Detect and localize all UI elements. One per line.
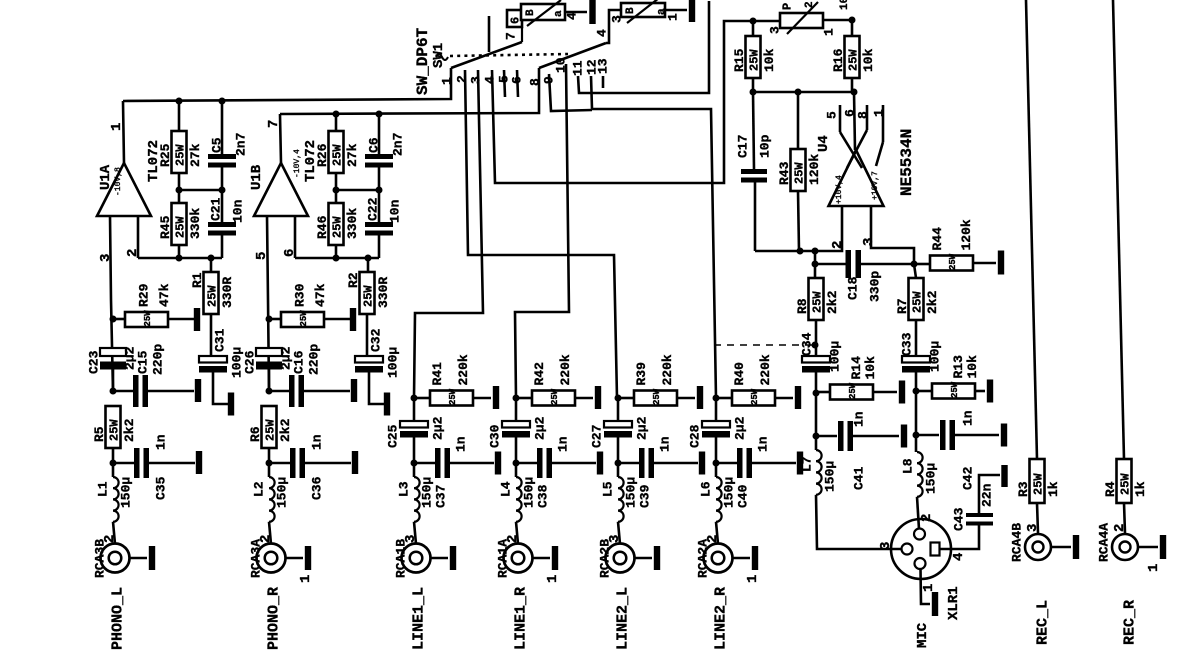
svg-text:4: 4	[951, 553, 967, 561]
inductor L2	[252, 477, 290, 522]
svg-text:47k: 47k	[157, 283, 172, 307]
wire (U1A feedback row)	[138, 258, 222, 272]
svg-text:1n: 1n	[658, 436, 673, 452]
wire (REC_R from top)	[1113, 0, 1124, 459]
node (R42 tap)	[513, 395, 520, 402]
svg-text:-10V,4: -10V,4	[293, 149, 302, 178]
svg-text:1n: 1n	[961, 410, 976, 426]
switch SW1 arm pole1	[451, 27, 522, 68]
svg-text:330k: 330k	[188, 208, 203, 239]
capacitor C21	[208, 190, 246, 258]
svg-text:1k: 1k	[1046, 481, 1061, 497]
wire (SW1 pin 4 to mic volume pot)	[492, 21, 780, 183]
svg-text:220k: 220k	[758, 354, 773, 385]
svg-text:C21: C21	[209, 197, 224, 221]
svg-text:4: 4	[595, 29, 610, 37]
node (R43 top)	[795, 89, 802, 96]
svg-text:7: 7	[504, 32, 519, 40]
wire (U4 pin 8)	[847, 105, 871, 168]
svg-text:R39: R39	[634, 362, 649, 386]
svg-text:SW1: SW1	[431, 43, 447, 68]
wire (SW1 pin 9)	[549, 74, 592, 111]
node (C41 tap)	[813, 433, 820, 440]
capacitor C38	[516, 436, 596, 508]
switch SW1 arm pole2	[539, 43, 606, 68]
switch SW1 pin 4	[483, 76, 498, 84]
svg-text:3: 3	[469, 76, 484, 84]
switch SW1 pin 5	[497, 70, 512, 97]
svg-text:25W: 25W	[299, 310, 309, 327]
capacitor C25	[386, 398, 446, 477]
svg-text:25W: 25W	[173, 216, 187, 238]
wire	[112, 448, 115, 477]
svg-text:R40: R40	[732, 362, 747, 386]
svg-text:10k: 10k	[863, 356, 878, 380]
svg-text:25W: 25W	[792, 162, 806, 184]
node (C40 tap)	[713, 460, 720, 467]
svg-text:150µ: 150µ	[624, 477, 639, 508]
capacitor C35	[113, 434, 195, 500]
ground (C15)	[195, 379, 201, 402]
svg-text:1: 1	[1146, 564, 1162, 572]
svg-text:1: 1	[921, 584, 937, 592]
resistor R15	[732, 21, 777, 92]
ground (C35)	[196, 451, 202, 474]
node (C5-C21)	[219, 187, 226, 194]
wire (U1B pin 6 inverting input)	[282, 216, 298, 258]
resistor R6	[248, 406, 293, 448]
svg-text:C27: C27	[590, 425, 605, 448]
svg-text:C38: C38	[536, 484, 551, 508]
capacitor C34	[800, 332, 843, 450]
svg-text:25W: 25W	[652, 388, 662, 405]
svg-text:C39: C39	[638, 484, 653, 508]
ground (C42)	[1001, 424, 1007, 447]
svg-text:U4: U4	[816, 135, 832, 152]
wire (RCA4A ground stub)	[1138, 546, 1158, 549]
capacitor C5	[208, 101, 249, 190]
svg-text:25W: 25W	[205, 285, 219, 307]
svg-text:5: 5	[825, 111, 840, 119]
svg-text:2µ2: 2µ2	[533, 416, 548, 440]
svg-text:3: 3	[1025, 524, 1041, 532]
resistor R39	[618, 354, 695, 405]
svg-text:2k2: 2k2	[925, 290, 940, 314]
capacitor C17	[736, 92, 773, 251]
svg-text:25W: 25W	[330, 216, 344, 238]
node (pot1-R16)	[849, 17, 856, 24]
wire (SW1 pin 11 up)	[578, 1, 709, 93]
svg-text:25W: 25W	[950, 381, 960, 398]
switch SW1 pin 9	[542, 76, 557, 84]
wire (RCA1B ground stub)	[431, 557, 449, 560]
inductor L7	[800, 450, 838, 495]
svg-text:R7: R7	[895, 298, 910, 314]
switch SW1 pin 1	[440, 77, 455, 85]
switch SW1 pin 8	[528, 78, 543, 86]
svg-text:RCA3B: RCA3B	[93, 539, 108, 578]
svg-text:C32: C32	[369, 328, 384, 352]
capacitor C40	[716, 436, 796, 508]
svg-text:C26: C26	[243, 350, 258, 374]
resistor R4	[1103, 459, 1148, 503]
svg-text:LINE1_R: LINE1_R	[512, 587, 529, 650]
svg-text:R25: R25	[158, 143, 173, 167]
ground (pot A)	[589, 0, 595, 24]
svg-text:8: 8	[528, 78, 543, 86]
svg-text:R44: R44	[930, 227, 945, 251]
potentiometer P (mic volume)	[768, 0, 852, 36]
node (rail1-R25)	[176, 98, 183, 105]
svg-text:10p: 10p	[758, 134, 773, 158]
svg-text:2: 2	[1112, 524, 1128, 532]
svg-text:REC_R: REC_R	[1121, 600, 1138, 645]
svg-text:25W: 25W	[848, 382, 858, 399]
svg-text:330R: 330R	[220, 277, 235, 308]
ground (C40)	[797, 452, 803, 475]
connector RCA1B	[394, 535, 431, 578]
svg-text:3: 3	[98, 254, 114, 262]
wire (L5 to RCA2B)	[618, 522, 620, 544]
wire	[268, 448, 271, 477]
svg-text:PHONO_L: PHONO_L	[109, 587, 126, 650]
svg-text:25W: 25W	[747, 49, 761, 71]
resistor R46	[315, 190, 360, 258]
svg-text:C41: C41	[852, 466, 867, 490]
node (C42 tap)	[913, 432, 920, 439]
node (R25-R45)	[176, 187, 183, 194]
capacitor C23	[87, 346, 138, 391]
svg-text:+10V,4: +10V,4	[835, 175, 844, 204]
ground (C39)	[699, 452, 705, 475]
svg-text:R5: R5	[92, 426, 107, 442]
svg-text:2k2: 2k2	[278, 418, 293, 442]
resistor R2	[346, 272, 391, 314]
ground (RCA1B)	[450, 546, 456, 570]
svg-text:3: 3	[861, 238, 877, 246]
ground (C41)	[901, 425, 907, 448]
svg-text:2k2: 2k2	[122, 418, 137, 442]
label REC_R	[1121, 600, 1138, 645]
switch SW1 pin 2	[455, 75, 470, 83]
resistor R30	[269, 283, 350, 327]
node (R30 tap)	[266, 316, 273, 323]
svg-text:150µ: 150µ	[722, 477, 737, 508]
wire (U1A output pin 1 to rail)	[109, 101, 125, 163]
svg-text:R3: R3	[1016, 481, 1031, 497]
capacitor C36	[269, 434, 351, 500]
svg-text:C6: C6	[367, 137, 382, 153]
svg-text:RCA4B: RCA4B	[1010, 523, 1025, 562]
svg-text:L1: L1	[96, 481, 111, 497]
svg-text:8: 8	[856, 111, 871, 119]
ground (R30)	[350, 308, 356, 331]
wire (L4 to RCA1A)	[516, 522, 518, 544]
svg-text:C18: C18	[846, 276, 861, 300]
ground (C43)	[1001, 465, 1007, 487]
wire (L2 to RCA3A)	[269, 522, 271, 544]
svg-text:R43: R43	[777, 161, 792, 185]
ground (C32)	[384, 393, 390, 416]
switch SW1 pin 10	[554, 57, 569, 73]
svg-text:25W: 25W	[846, 49, 860, 71]
capacitor C31	[199, 314, 245, 404]
svg-text:1: 1	[822, 28, 837, 36]
svg-text:25W: 25W	[143, 310, 153, 327]
svg-text:C22: C22	[366, 197, 381, 221]
svg-text:NE5534N: NE5534N	[898, 129, 916, 196]
svg-text:R26: R26	[315, 143, 330, 167]
node (R8 top)	[812, 248, 819, 255]
ground (RCA1A)	[552, 546, 558, 570]
potentiometer P1 (gain pot A, cut off)	[504, 0, 587, 40]
inductor L6	[699, 477, 737, 522]
svg-text:2n7: 2n7	[234, 133, 249, 156]
resistor R43	[777, 92, 822, 251]
wire (U4 output node rail)	[753, 91, 854, 94]
capacitor C32	[355, 314, 401, 404]
node (R15 bottom)	[750, 89, 757, 96]
svg-text:C33: C33	[900, 332, 915, 356]
node (R8-C18)	[812, 261, 819, 268]
wire (U1A output rail to SW1 pin 1)	[123, 68, 451, 101]
ground (R13)	[987, 380, 993, 403]
svg-text:R41: R41	[430, 362, 445, 386]
node (C38 tap)	[513, 460, 520, 467]
wire (U1A pin 3 non-inverting input)	[98, 216, 114, 391]
svg-text:U1A: U1A	[98, 164, 114, 190]
node (C18-R7-R44)	[911, 261, 918, 268]
svg-text:25W: 25W	[330, 144, 344, 166]
svg-text:RCA3A: RCA3A	[249, 539, 264, 578]
ground (C16)	[351, 379, 357, 402]
wire (XLR pin4 to C43)	[940, 526, 979, 550]
svg-text:150µ: 150µ	[420, 477, 435, 508]
resistor R41	[414, 354, 491, 405]
wire (L3 to RCA1B)	[414, 522, 416, 544]
svg-text:5: 5	[254, 252, 270, 260]
node (pot3-R15)	[750, 18, 757, 25]
capacitor C27	[590, 398, 650, 477]
svg-text:L6: L6	[699, 481, 714, 497]
capacitor C39	[618, 436, 698, 508]
node (U4 out)	[851, 89, 858, 96]
ground (RCA3B)	[149, 546, 155, 570]
svg-text:RCA2A: RCA2A	[696, 539, 711, 578]
node (mic tap)	[812, 342, 819, 349]
svg-text:7: 7	[266, 120, 282, 128]
node (C35 tap)	[110, 460, 117, 467]
svg-text:1n: 1n	[756, 436, 771, 452]
svg-text:R13: R13	[951, 355, 966, 379]
svg-text:25W: 25W	[1031, 473, 1045, 495]
node (R26-R46)	[333, 187, 340, 194]
switch SW1 gang dotted line	[450, 54, 568, 56]
svg-text:220p: 220p	[307, 344, 322, 375]
switch SW1 pin 11	[571, 60, 586, 76]
svg-text:L2: L2	[252, 481, 267, 497]
svg-text:C35: C35	[154, 476, 169, 500]
label REC_L	[1034, 600, 1051, 645]
wire (R4 to RCA4A)	[1124, 503, 1125, 533]
ground (R39)	[697, 386, 703, 409]
resistor R8	[795, 278, 840, 356]
svg-text:C37: C37	[434, 485, 449, 508]
node (rail2-R26)	[333, 111, 340, 118]
label RCA4A pin1	[1146, 564, 1162, 572]
wire (SW1 pin 12 to LINE2_R)	[591, 76, 716, 398]
node (R41 tap)	[411, 395, 418, 402]
potentiometer P2 (gain pot B, cut off)	[610, 0, 687, 23]
wire (feedback tap row B)	[336, 189, 379, 192]
resistor R3	[1016, 459, 1061, 503]
svg-text:1: 1	[545, 575, 561, 583]
svg-text:22n: 22n	[980, 483, 995, 507]
svg-text:220k: 220k	[456, 354, 471, 385]
wire (SW1 pin 10 to LINE1_R)	[515, 64, 569, 398]
svg-text:R16: R16	[831, 48, 846, 72]
ground (XLR1)	[932, 592, 938, 616]
svg-text:150µ: 150µ	[522, 477, 537, 508]
svg-text:R2: R2	[346, 272, 361, 288]
svg-text:C23: C23	[87, 350, 102, 374]
ground (RCA3A)	[305, 546, 311, 570]
capacitor C43	[952, 475, 1000, 531]
svg-text:10n: 10n	[231, 199, 246, 223]
svg-text:150µ: 150µ	[119, 477, 134, 508]
inductor L1	[96, 477, 134, 522]
svg-text:C5: C5	[210, 137, 225, 153]
ground (R42)	[595, 386, 601, 409]
svg-text:25W: 25W	[750, 388, 760, 405]
capacitor C42	[916, 410, 999, 490]
svg-text:1n: 1n	[154, 434, 169, 450]
switch SW1 common tilde	[436, 54, 448, 60]
switch SW1 label	[414, 27, 447, 95]
svg-text:1k: 1k	[1133, 481, 1148, 497]
svg-text:25W: 25W	[107, 419, 121, 441]
svg-text:1: 1	[745, 575, 761, 583]
svg-text:10n: 10n	[388, 199, 403, 223]
svg-text:2µ2: 2µ2	[431, 416, 446, 440]
svg-text:2: 2	[830, 241, 846, 249]
wire (RCA2B ground stub)	[635, 557, 653, 560]
svg-text:1n: 1n	[852, 411, 867, 427]
wire (REC_L from top)	[1026, 0, 1037, 459]
svg-text:a: a	[553, 10, 565, 17]
wire (R8 node row)	[814, 251, 817, 278]
wire (U4 pin 2)	[815, 206, 846, 251]
svg-text:25W: 25W	[810, 291, 824, 313]
node (C6-C22)	[376, 187, 383, 194]
svg-text:SW_DP6T: SW_DP6T	[414, 27, 432, 95]
svg-text:C30: C30	[488, 424, 503, 448]
wire (R3 to RCA4B)	[1037, 503, 1038, 533]
wire (SW1 pin 3 to LINE1_L)	[414, 70, 483, 398]
wire (U1B feedback row)	[295, 258, 379, 272]
svg-text:R29: R29	[137, 283, 152, 307]
node (R40 tap)	[713, 395, 720, 402]
resistor R14	[816, 356, 897, 400]
label LINE2_R	[712, 587, 729, 650]
ground (R14)	[899, 381, 905, 404]
connector RCA3A	[249, 535, 286, 578]
svg-text:120k: 120k	[959, 219, 974, 250]
wire (arm2 tip to pot B wiper)	[595, 10, 621, 43]
wire (L8 to XLR pin2)	[917, 497, 935, 529]
node (C36 tap)	[266, 460, 273, 467]
label PHONO_L	[109, 587, 126, 650]
resistor R25	[158, 101, 203, 190]
ground (C31)	[228, 393, 234, 416]
connector RCA2A	[696, 535, 733, 578]
svg-text:C34: C34	[800, 332, 815, 356]
svg-text:1n: 1n	[454, 436, 469, 452]
label LINE2_L	[614, 587, 631, 650]
svg-text:6: 6	[282, 249, 298, 257]
svg-text:2n7: 2n7	[391, 133, 406, 156]
node (rail2-C6)	[376, 111, 383, 118]
svg-text:R6: R6	[248, 426, 263, 442]
ground (RCA4A)	[1160, 535, 1166, 559]
wire (U1B pin 5 non-inverting input)	[254, 216, 270, 391]
svg-text:B: B	[525, 9, 537, 16]
svg-text:1n: 1n	[310, 434, 325, 450]
svg-text:REC_L: REC_L	[1034, 600, 1051, 645]
switch SW1 pin 3	[469, 76, 484, 84]
wire (L7 to XLR pin3)	[816, 495, 901, 549]
ground (R40)	[795, 386, 801, 409]
wire (U4 pin 6 output)	[843, 92, 858, 150]
svg-text:25W: 25W	[910, 291, 924, 313]
capacitor C33	[900, 332, 943, 452]
resistor R16	[831, 20, 876, 92]
capacitor C26	[243, 346, 294, 391]
svg-text:LINE1_L: LINE1_L	[410, 587, 427, 650]
node (C37 tap)	[411, 460, 418, 467]
svg-text:25W: 25W	[173, 144, 187, 166]
capacitor C22	[365, 190, 403, 258]
svg-text:25W: 25W	[448, 388, 458, 405]
resistor R13	[916, 355, 985, 399]
svg-text:10: 10	[839, 0, 851, 10]
wire (L1 to RCA3B)	[113, 522, 115, 544]
svg-text:R46: R46	[315, 215, 330, 239]
svg-text:RCA1A: RCA1A	[496, 539, 511, 578]
svg-text:27k: 27k	[188, 143, 203, 167]
svg-text:13: 13	[596, 58, 611, 74]
svg-text:1n: 1n	[556, 436, 571, 452]
svg-text:RCA4A: RCA4A	[1097, 523, 1112, 562]
svg-text:RCA2B: RCA2B	[598, 539, 613, 578]
svg-text:C28: C28	[688, 424, 703, 448]
svg-text:3: 3	[878, 542, 894, 550]
svg-text:1: 1	[666, 13, 681, 21]
svg-text:330k: 330k	[345, 208, 360, 239]
label LINE1_R	[512, 587, 529, 650]
ground (RCA4B)	[1073, 535, 1079, 559]
svg-text:C17: C17	[736, 135, 751, 158]
node (R1 top)	[208, 255, 215, 262]
svg-text:25W: 25W	[550, 388, 560, 405]
svg-text:220k: 220k	[558, 354, 573, 385]
ground (pot B)	[689, 0, 695, 22]
switch SW1 pin 12	[585, 59, 600, 75]
svg-text:150µ: 150µ	[275, 477, 290, 508]
op-amp U1B	[249, 149, 308, 216]
wire (feedback tap row A)	[179, 189, 222, 192]
connector RCA2B	[598, 535, 635, 578]
